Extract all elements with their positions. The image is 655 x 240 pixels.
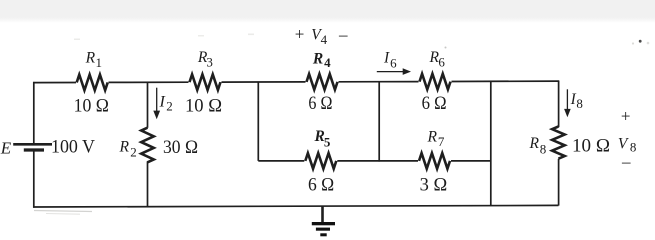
battery source E: short negative plate xyxy=(24,148,44,151)
wire: R5 row, left lead xyxy=(258,160,304,162)
svg-text:I: I xyxy=(383,50,390,67)
ground symbol xyxy=(312,206,335,236)
svg-text:6: 6 xyxy=(390,56,397,71)
wire: top rail, E to R1 xyxy=(33,82,76,84)
svg-text:R: R xyxy=(427,129,438,146)
svg-text:–: – xyxy=(338,25,348,44)
wire: top rail, R3 to R4 xyxy=(222,81,306,83)
svg-text:100 V: 100 V xyxy=(51,137,95,158)
resistor R1 (zigzag) xyxy=(77,75,108,91)
wire: R7 row, right lead xyxy=(451,160,491,162)
resistor R7 (zigzag) xyxy=(419,153,450,169)
svg-text:10 Ω: 10 Ω xyxy=(74,96,109,117)
current arrow I8 (downward) xyxy=(566,89,568,110)
resistor R6 (zigzag) xyxy=(420,74,451,90)
svg-text:1: 1 xyxy=(96,55,103,70)
svg-text:2: 2 xyxy=(166,99,173,114)
svg-text:8: 8 xyxy=(630,139,637,154)
svg-text:30 Ω: 30 Ω xyxy=(163,137,198,158)
svg-text:3: 3 xyxy=(206,55,213,70)
current arrow I2 (downward) xyxy=(156,88,158,112)
wire: top rail, R6 to R8 branch corner xyxy=(452,80,560,82)
wire: left branch above battery E xyxy=(33,82,35,144)
battery source E: long positive plate xyxy=(13,143,52,146)
resistor R4 (zigzag) xyxy=(307,74,338,90)
speck above R6 xyxy=(445,47,447,49)
speck dash left of V4 xyxy=(248,34,254,36)
wire: R7 row, left lead xyxy=(379,160,418,162)
svg-text:4: 4 xyxy=(324,55,331,70)
svg-text:8: 8 xyxy=(540,142,547,157)
svg-text:5: 5 xyxy=(324,135,331,150)
svg-text:10 Ω: 10 Ω xyxy=(185,96,222,117)
node D: vertical wire right of R6 down to bottom rail xyxy=(490,82,492,206)
svg-text:10 Ω: 10 Ω xyxy=(572,135,610,156)
svg-text:4: 4 xyxy=(321,32,328,47)
svg-text:2: 2 xyxy=(130,145,137,160)
svg-text:6 Ω: 6 Ω xyxy=(308,175,334,196)
svg-text:6 Ω: 6 Ω xyxy=(422,93,447,114)
wire: R2 branch, top lead xyxy=(147,82,149,127)
wire: R8 branch, bottom lead xyxy=(558,159,560,206)
svg-text:6: 6 xyxy=(438,55,445,70)
svg-text:V: V xyxy=(618,136,629,153)
wire: top rail, R1 to R3 xyxy=(109,81,189,83)
svg-text:+: + xyxy=(295,25,305,44)
resistor R3 (zigzag) xyxy=(190,74,221,90)
resistor R2 (vertical zigzag) xyxy=(141,128,154,163)
wire: top rail, R4 to R6 xyxy=(339,81,419,83)
svg-text:E: E xyxy=(0,138,12,157)
svg-text:R: R xyxy=(312,50,323,67)
wire: bottom rail xyxy=(33,205,558,207)
svg-text:6 Ω: 6 Ω xyxy=(308,93,332,114)
svg-text:R: R xyxy=(85,49,96,66)
resistor R5 (zigzag) xyxy=(305,153,336,169)
resistor R8 (vertical zigzag) xyxy=(552,127,565,159)
svg-text:R: R xyxy=(119,139,130,156)
svg-text:8: 8 xyxy=(576,96,583,111)
wire: left branch below battery E xyxy=(33,151,35,208)
speck (scan artifact) top right xyxy=(639,40,642,43)
svg-text:R: R xyxy=(529,135,540,152)
svg-text:3 Ω: 3 Ω xyxy=(420,175,448,196)
wire: R5 row, right lead xyxy=(337,160,379,162)
smudge below bottom-left corner (scan artifact) xyxy=(34,211,92,212)
svg-text:+: + xyxy=(621,107,631,126)
current arrow I6 (rightward) xyxy=(377,71,404,73)
svg-text:–: – xyxy=(621,152,631,171)
svg-text:7: 7 xyxy=(438,134,445,149)
wire: R2 branch, bottom lead xyxy=(147,161,149,206)
node B: vertical wire from top rail down to R5 row xyxy=(257,82,259,161)
node C: vertical wire between R4/R6 down to R5/R7 row xyxy=(378,82,380,162)
wire: R8 branch, top lead xyxy=(558,81,560,127)
